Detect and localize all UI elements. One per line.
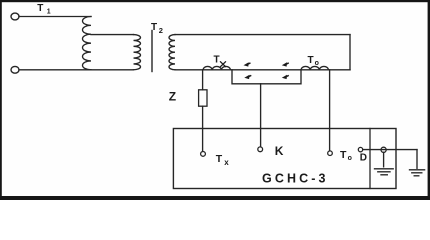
transformer T2 secondary coil bbox=[169, 35, 175, 70]
transformer T2 primary coil bbox=[134, 35, 141, 70]
junction circle inside compartment bbox=[381, 147, 386, 152]
wire secondary bottom main bbox=[175, 69, 350, 71]
ground inside compartment bbox=[383, 152, 385, 166]
svg-text:x: x bbox=[224, 158, 229, 167]
terminal circle top-left (T1 input 1) bbox=[11, 13, 19, 20]
resistor Z bbox=[199, 90, 207, 106]
svg-text:D: D bbox=[360, 152, 367, 163]
svg-text:T: T bbox=[37, 3, 43, 14]
terminal D circle bbox=[358, 147, 362, 151]
svg-text:Z: Z bbox=[169, 89, 176, 103]
wire Z to Tx terminal bbox=[202, 106, 204, 151]
transformer T1 primary coil bbox=[83, 17, 92, 70]
svg-text:1: 1 bbox=[47, 9, 51, 16]
svg-text:T: T bbox=[216, 153, 223, 165]
wire To drop bbox=[329, 70, 331, 151]
wire right drop bbox=[349, 35, 351, 70]
wire secondary top bbox=[175, 34, 350, 36]
svg-text:T: T bbox=[151, 22, 157, 33]
arrow lower right bbox=[282, 75, 289, 79]
wire K drop bbox=[260, 84, 262, 147]
terminal To circle bbox=[328, 151, 333, 156]
svg-text:GCHC-3: GCHC-3 bbox=[262, 171, 329, 185]
svg-text:T: T bbox=[214, 55, 220, 66]
compensation box under wire bbox=[232, 70, 301, 84]
current transformer Tx coil bbox=[203, 66, 231, 69]
GCHC-3 box bbox=[173, 129, 396, 189]
svg-text:o: o bbox=[315, 60, 319, 67]
arrow upper right bbox=[282, 62, 289, 66]
arrow upper left bbox=[244, 62, 251, 66]
terminal Tx circle bbox=[201, 152, 206, 157]
terminal K circle bbox=[258, 147, 263, 152]
wire top-left input bbox=[19, 16, 91, 18]
label Tx coil x-mark bbox=[220, 62, 225, 67]
svg-text:T: T bbox=[308, 55, 314, 66]
ground outside right bbox=[416, 150, 418, 169]
wire bottom input bbox=[19, 69, 134, 71]
svg-text:K: K bbox=[275, 144, 284, 158]
svg-text:T: T bbox=[340, 149, 347, 161]
wire tap T1 to T2 primary bbox=[91, 34, 134, 36]
svg-text:o: o bbox=[348, 155, 352, 162]
wire D to earth bbox=[363, 149, 417, 151]
divider line inside box bbox=[369, 129, 371, 189]
arrow lower left bbox=[244, 75, 251, 79]
svg-text:2: 2 bbox=[159, 26, 163, 35]
transformer T2 core bbox=[151, 31, 153, 72]
arrows (current direction marks) bbox=[244, 62, 290, 79]
wire Z drop bbox=[202, 70, 204, 90]
terminal circle bottom-left (T1 input 2) bbox=[11, 66, 19, 73]
current transformer To coil bbox=[301, 66, 329, 69]
